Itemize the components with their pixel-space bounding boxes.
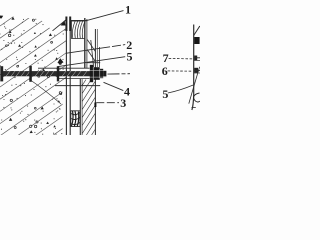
svg-text:7: 7: [163, 51, 169, 65]
svg-text:1: 1: [125, 2, 131, 16]
svg-text:5: 5: [162, 87, 168, 101]
svg-text:5: 5: [127, 50, 133, 64]
svg-text:3: 3: [120, 96, 126, 110]
svg-text:6: 6: [162, 64, 168, 78]
